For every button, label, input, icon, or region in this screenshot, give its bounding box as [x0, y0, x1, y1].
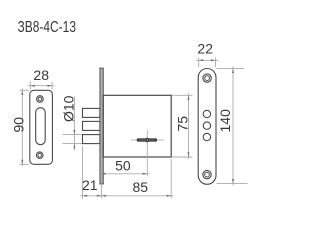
faceplate bottom screw hole	[203, 170, 211, 178]
faceplate top screw hole	[203, 74, 211, 82]
dimension 90 (strike plate height)	[20, 88, 30, 166]
key cylinder (profile)	[137, 139, 157, 142]
strike plate (front view, left)	[30, 90, 53, 164]
extension line body right (85)	[170, 159, 172, 199]
bolt pin 3	[83, 135, 100, 144]
svg-text:90: 90	[11, 117, 27, 133]
dimension 28 (strike plate width)	[28, 82, 55, 90]
svg-text:22: 22	[197, 41, 213, 57]
svg-text:50: 50	[115, 157, 131, 173]
faceplate bolt hole 1	[203, 110, 210, 117]
lock body (side view)	[103, 95, 171, 157]
dimension line 21 / 85	[80, 195, 173, 197]
bolt pin 1	[83, 108, 100, 117]
faceplate bar (side view)	[100, 68, 103, 184]
bolt pin 2	[83, 121, 100, 130]
svg-text:Ø10: Ø10	[61, 95, 77, 122]
bolt pin extension lines (for Ø10)	[63, 135, 83, 144]
svg-text:ЗВ8-4С-13: ЗВ8-4С-13	[18, 19, 77, 36]
svg-text:21: 21	[82, 177, 98, 193]
strike plate bottom screw hole	[36, 152, 43, 159]
faceplate (front view, right)	[198, 69, 216, 185]
dimension Ø10 (bolt diameter)	[73, 97, 75, 151]
dimension 50 (to key centre)	[99, 173, 150, 175]
svg-text:85: 85	[133, 179, 149, 195]
svg-text:140: 140	[217, 109, 233, 133]
strike plate top screw hole	[37, 96, 44, 103]
faceplate bolt hole 2	[203, 122, 210, 129]
svg-text:75: 75	[175, 116, 191, 132]
extension line faceplate bottom	[100, 185, 102, 199]
strike plate latch slot	[36, 108, 46, 145]
faceplate bolt hole 3	[203, 133, 210, 140]
dimension 75 (body height)	[172, 93, 193, 159]
dimension 22 (faceplate width)	[196, 58, 218, 68]
extension line pin tip (21)	[82, 146, 84, 199]
svg-text:28: 28	[33, 67, 49, 83]
dimension 140 (faceplate height)	[217, 66, 248, 185]
key cylinder centerlines	[131, 130, 164, 176]
